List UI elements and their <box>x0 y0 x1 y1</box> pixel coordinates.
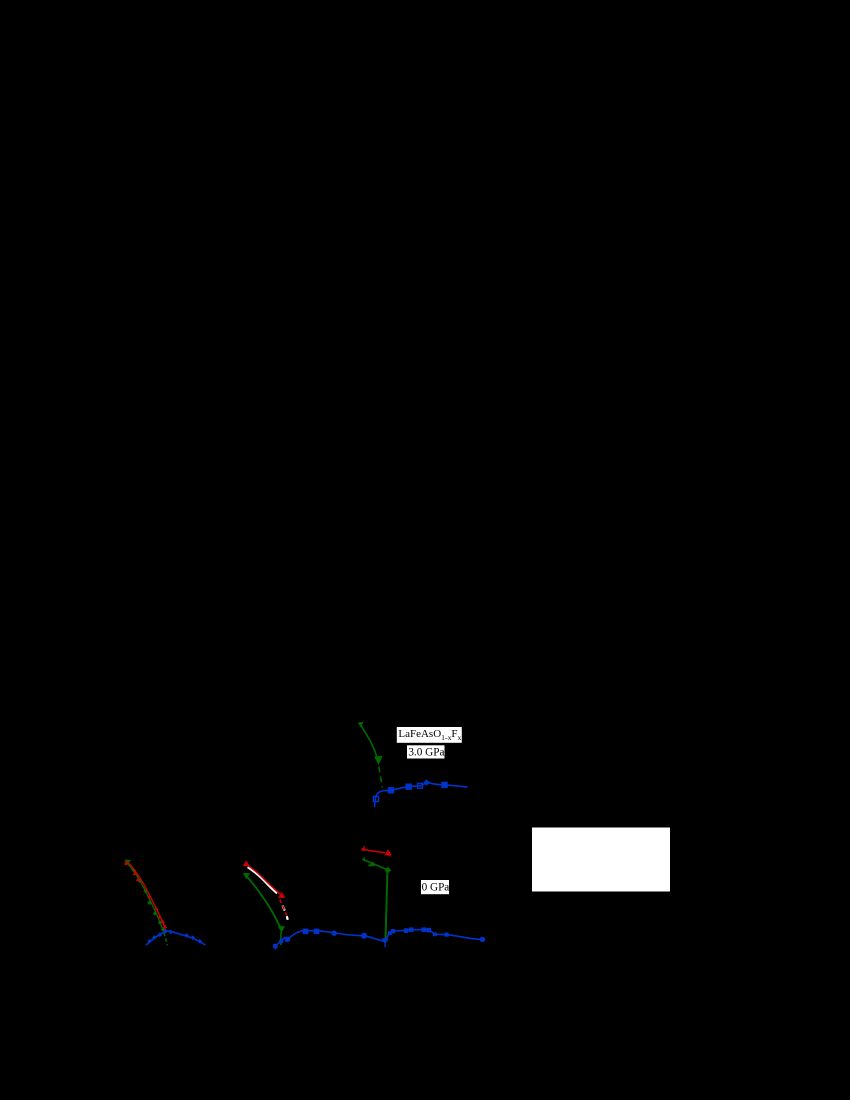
svg-text:0 GPa: 0 GPa <box>422 882 450 894</box>
svg-text:3.0 GPa: 3.0 GPa <box>408 746 444 758</box>
